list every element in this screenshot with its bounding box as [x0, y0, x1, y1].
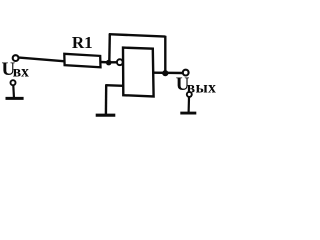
- wire feedback top horizontal: [109, 34, 166, 36]
- svg-text:R1: R1: [72, 33, 93, 52]
- node terminal (output lower, open circle): [187, 92, 192, 97]
- wire input terminal to R1 left: [19, 58, 65, 62]
- node terminal (input lower, open circle): [11, 80, 16, 85]
- svg-text:вх: вх: [13, 63, 29, 80]
- ground (left) bar: [6, 97, 24, 100]
- wire op-amp non-inverting input to ground lead: [106, 84, 124, 87]
- wire R1 right to node A: [101, 61, 112, 64]
- ground (right) bar: [180, 112, 196, 115]
- wire feedback vertical right (down to output node): [164, 36, 166, 74]
- resistor R1: [64, 54, 100, 68]
- node Uout terminal (output, open circle): [183, 70, 189, 76]
- wire feedback vertical left (node A up): [108, 34, 111, 63]
- node A junction dot (inverting input node): [106, 60, 112, 66]
- node B junction dot (output node, feedback tap): [162, 70, 168, 76]
- ground (right) lead: [188, 97, 191, 113]
- op-amp U1 body (rectangular symbol): [123, 48, 154, 97]
- wire op-amp output to output terminal: [154, 71, 183, 74]
- ground (left) lead: [12, 86, 15, 99]
- node Uin terminal (input, open circle): [13, 55, 19, 61]
- wire node A to op-amp input bubble: [110, 61, 117, 63]
- ground (middle, non-inverting input) lead: [105, 85, 108, 116]
- op-amp U1 inverting input bubble: [117, 59, 123, 65]
- ground (middle) bar: [96, 114, 116, 117]
